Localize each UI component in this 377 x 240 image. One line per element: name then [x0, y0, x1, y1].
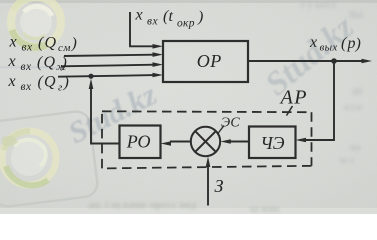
svg-text:вх: вх: [22, 42, 33, 54]
label x_vyx(p): [309, 34, 361, 54]
svg-text:АР: АР: [279, 87, 308, 109]
svg-text:ЧЭ: ЧЭ: [260, 133, 284, 153]
block RO: [120, 126, 161, 159]
svg-text:ы с: ы с: [340, 155, 355, 166]
node dot line3 junction: [88, 74, 93, 79]
svg-text:см: см: [58, 42, 71, 54]
svg-text:окр: окр: [177, 18, 195, 30]
svg-text:вх: вх: [147, 16, 158, 28]
svg-text:Q: Q: [45, 35, 57, 52]
svg-text:ца: ца: [350, 142, 361, 153]
svg-text:): ): [355, 36, 361, 53]
faint bleed-through text bottom: [88, 199, 280, 215]
svg-text:x: x: [8, 73, 16, 90]
faint underline bleed left: [0, 67, 58, 68]
watermark logo bottom-left with card outline: [0, 110, 99, 208]
svg-text:x: x: [9, 34, 17, 51]
wire: setpoint Z: [207, 167, 209, 206]
summing junction ES circle: [191, 127, 220, 156]
arrowhead into ChE: [296, 138, 307, 143]
arrowhead line1: [153, 52, 164, 57]
block ChE: [249, 127, 296, 159]
block OP: [163, 41, 248, 82]
svg-text:вых: вых: [320, 42, 338, 54]
svg-text:ЗЫ: ЗЫ: [348, 10, 363, 21]
svg-text:вх: вх: [21, 81, 32, 93]
label x_vx(Q_zh): [8, 53, 68, 73]
arrowhead into circle from ChE: [220, 139, 231, 144]
arrowhead t input: [153, 44, 164, 49]
wire: RO out left and up to line 3: [91, 87, 120, 144]
wire: input line 2: [61, 65, 154, 67]
arrowhead line2: [153, 62, 164, 67]
node dot output: [331, 58, 337, 64]
wire: ChE to circle: [230, 141, 249, 143]
leader line ES: [218, 126, 225, 135]
svg-text:x: x: [309, 34, 317, 51]
svg-text:г: г: [58, 82, 63, 94]
svg-text:РО: РО: [126, 132, 151, 152]
summing junction X diagonals: [195, 131, 216, 152]
svg-text:): ): [71, 35, 77, 52]
svg-text:ЭС: ЭС: [221, 116, 240, 131]
svg-text:ап. і щ кине пресс нед: ап. і щ кине пресс нед: [88, 199, 197, 211]
wire: output line: [248, 60, 367, 62]
arrowhead into RO: [161, 141, 172, 146]
dashed box AR: [102, 111, 312, 168]
faint bleed-through text right strip: [300, 0, 363, 166]
label x_vx(Q_sm): [9, 34, 77, 54]
svg-text:): ): [63, 74, 69, 91]
svg-text:ОР: ОР: [197, 51, 222, 71]
svg-text:): ): [61, 55, 67, 72]
label x_vx(Q_g): [8, 73, 69, 94]
arrowhead up into circle from Z: [206, 157, 211, 168]
wire: t input elbow: [130, 12, 154, 46]
svg-text:Q: Q: [44, 54, 56, 71]
watermark logo top-left: [11, 0, 61, 47]
wire: input line 1: [64, 55, 154, 56]
svg-text:кт.п: кт.п: [344, 102, 362, 113]
svg-text:вх: вх: [21, 61, 32, 73]
wire: input line 3: [58, 75, 154, 77]
svg-text:): ): [197, 9, 203, 26]
svg-text:З: З: [215, 176, 224, 196]
label x_vx(t_okr): [135, 7, 204, 30]
arrowhead line3: [153, 73, 164, 78]
svg-text:p: p: [347, 35, 356, 52]
svg-text:t: t: [169, 8, 174, 25]
arrowhead output: [362, 59, 373, 64]
svg-text:т у котл: т у котл: [300, 0, 336, 11]
svg-text:x: x: [135, 7, 143, 24]
arrowhead up into line3 junction: [89, 79, 94, 90]
leader slash AR: [287, 106, 293, 116]
svg-text:ы нап: ы нап: [250, 203, 280, 214]
svg-text:Q: Q: [44, 74, 56, 91]
wire: feedback down-right: [306, 61, 334, 140]
svg-text:x: x: [8, 53, 16, 70]
svg-text:іН: іН: [352, 87, 363, 98]
wire: circle to RO: [170, 141, 191, 143]
